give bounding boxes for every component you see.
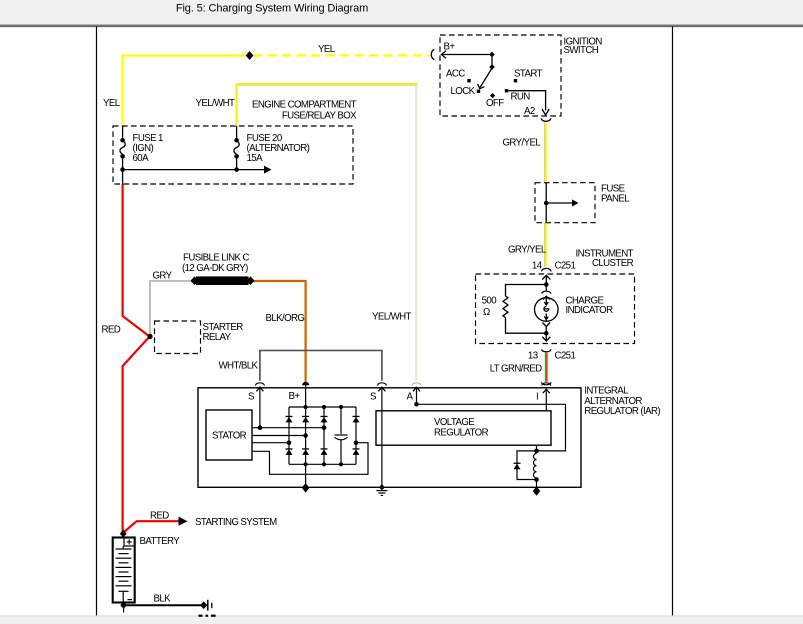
svg-text:FUSE/RELAY BOX: FUSE/RELAY BOX: [282, 111, 357, 122]
svg-text:GRY/YEL: GRY/YEL: [508, 245, 547, 256]
svg-text:ENGINE COMPARTMENT: ENGINE COMPARTMENT: [252, 100, 357, 111]
svg-text:RED: RED: [150, 511, 169, 522]
svg-text:INDICATOR: INDICATOR: [566, 305, 614, 316]
svg-text:Ω: Ω: [483, 307, 490, 318]
svg-text:LOCK: LOCK: [451, 86, 476, 97]
svg-text:CLUSTER: CLUSTER: [592, 258, 634, 269]
svg-text:LT GRN/RED: LT GRN/RED: [490, 364, 542, 375]
svg-text:FUSIBLE LINK C: FUSIBLE LINK C: [183, 253, 249, 264]
svg-text:+: +: [126, 537, 132, 548]
svg-text:C251: C251: [555, 351, 576, 362]
svg-text:ACC: ACC: [446, 69, 465, 80]
svg-text:C251: C251: [555, 260, 576, 271]
svg-text:YEL: YEL: [318, 44, 336, 55]
svg-text:15A: 15A: [247, 153, 264, 164]
svg-text:REGULATOR (IAR): REGULATOR (IAR): [584, 406, 660, 417]
svg-text:A2: A2: [524, 106, 535, 117]
svg-text:I: I: [536, 392, 538, 403]
svg-text:STARTING SYSTEM: STARTING SYSTEM: [195, 517, 277, 528]
svg-text:REGULATOR: REGULATOR: [434, 428, 489, 439]
svg-text:BLK: BLK: [154, 594, 172, 605]
svg-text:BATTERY: BATTERY: [140, 536, 181, 547]
svg-text:YEL/WHT: YEL/WHT: [196, 98, 236, 109]
svg-text:B+: B+: [444, 42, 456, 53]
svg-text:YEL/WHT: YEL/WHT: [372, 312, 412, 323]
svg-text:13: 13: [528, 351, 538, 362]
svg-text:OFF: OFF: [486, 98, 504, 109]
svg-text:B+: B+: [289, 391, 301, 402]
svg-text:14: 14: [532, 260, 543, 271]
svg-text:WHT/BLK: WHT/BLK: [219, 361, 259, 372]
svg-text:(12 GA-DK GRY): (12 GA-DK GRY): [182, 263, 248, 274]
svg-text:YEL: YEL: [103, 98, 121, 109]
svg-text:60A: 60A: [133, 153, 150, 164]
svg-text:RED: RED: [102, 325, 121, 336]
svg-text:PANEL: PANEL: [601, 194, 630, 205]
svg-text:RUN: RUN: [511, 92, 531, 103]
svg-text:STATOR: STATOR: [212, 431, 247, 442]
svg-text:GRY: GRY: [153, 271, 173, 282]
svg-text:BLK/ORG: BLK/ORG: [266, 313, 305, 324]
svg-text:GRY/YEL: GRY/YEL: [503, 138, 542, 149]
svg-text:SWITCH: SWITCH: [564, 45, 599, 56]
svg-text:Fig. 5: Charging System Wiring: Fig. 5: Charging System Wiring Diagram: [176, 3, 368, 15]
svg-text:START: START: [514, 69, 543, 80]
svg-text:500: 500: [482, 296, 498, 307]
svg-text:RELAY: RELAY: [203, 332, 232, 343]
svg-text:VOLTAGE: VOLTAGE: [434, 417, 475, 428]
